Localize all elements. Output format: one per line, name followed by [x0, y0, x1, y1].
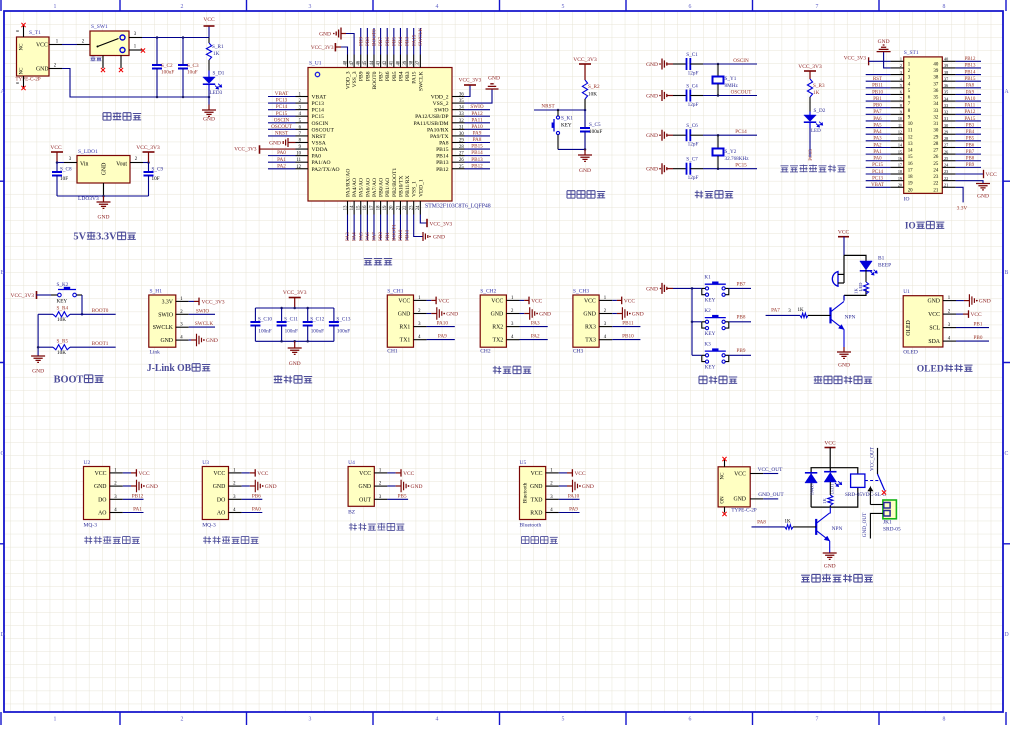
svg-text:7: 7 [900, 96, 902, 101]
svg-text:PA9: PA9 [966, 90, 975, 95]
svg-text:PB6: PB6 [252, 493, 261, 499]
svg-text:Bluetooth: Bluetooth [520, 523, 542, 529]
svg-text:26: 26 [944, 149, 948, 154]
svg-text:PA1: PA1 [133, 507, 142, 513]
svg-text:22: 22 [933, 182, 938, 187]
svg-text:5: 5 [562, 717, 565, 723]
svg-text:AO: AO [217, 511, 225, 517]
svg-text:4: 4 [436, 4, 439, 10]
svg-text:TX2: TX2 [493, 338, 504, 344]
svg-text:S_T1: S_T1 [29, 30, 41, 36]
svg-text:S_C7: S_C7 [686, 157, 698, 163]
svg-text:16: 16 [898, 156, 902, 161]
svg-text:14: 14 [350, 205, 355, 210]
ground LDO [97, 196, 111, 221]
ground jlink pin 4 [189, 334, 218, 347]
svg-text:PB8: PB8 [966, 157, 975, 162]
svg-text:VSS_3: VSS_3 [352, 71, 358, 87]
connector S_ST1 IO header body [904, 50, 943, 203]
svg-text:8: 8 [943, 717, 946, 723]
svg-text:PA8: PA8 [439, 140, 449, 146]
svg-text:40: 40 [944, 57, 948, 62]
svg-text:1K: 1K [213, 51, 220, 57]
resistor S_R4 10K [38, 306, 82, 323]
node PB6 U3 [242, 493, 263, 499]
svg-text:PB3: PB3 [405, 71, 411, 81]
capacitor S_C10 100nF [250, 308, 272, 341]
svg-text:RST: RST [873, 77, 882, 82]
button K1 KEY [692, 275, 729, 304]
capacitor S_C3 10uF [178, 38, 199, 98]
wire filter top rail [255, 307, 334, 310]
svg-text:PA5/AO: PA5/AO [359, 178, 365, 197]
svg-text:PB9: PB9 [737, 348, 746, 354]
power port VCC for LDO [50, 145, 63, 163]
svg-text:PA10: PA10 [965, 97, 976, 102]
svg-text:VCC: VCC [734, 472, 746, 478]
svg-text:20: 20 [390, 205, 395, 210]
S_H1 pins [176, 297, 189, 341]
svg-text:13: 13 [908, 142, 913, 147]
node GND_OUT [750, 492, 784, 499]
svg-text:15: 15 [908, 155, 913, 160]
svg-text:GND: GND [582, 484, 594, 490]
svg-text:PA1: PA1 [873, 150, 882, 155]
svg-text:100nF: 100nF [311, 329, 324, 335]
svg-text:MQ-3: MQ-3 [84, 523, 98, 529]
svg-text:VCC: VCC [257, 471, 268, 477]
svg-text:SWCLK: SWCLK [418, 28, 424, 46]
svg-text:24: 24 [933, 168, 938, 173]
svg-text:RX2: RX2 [492, 325, 503, 331]
U4 pins [374, 468, 387, 499]
connector JK1 SRD-05 [883, 500, 901, 533]
svg-text:28: 28 [933, 142, 938, 147]
svg-text:SRD-05: SRD-05 [883, 527, 901, 533]
svg-text:12pF: 12pF [688, 71, 699, 77]
svg-text:1K: 1K [854, 288, 859, 294]
svg-text:B1: B1 [878, 256, 885, 262]
svg-text:PB7: PB7 [378, 37, 384, 46]
svg-text:PB11: PB11 [622, 321, 634, 327]
resistor S_R1 1K [206, 38, 224, 61]
svg-text:MQ-3: MQ-3 [202, 523, 216, 529]
svg-text:31: 31 [459, 125, 464, 130]
ground keys [646, 283, 692, 294]
svg-text:K3: K3 [704, 341, 711, 347]
node PB7 [729, 281, 751, 288]
svg-text:Vin: Vin [80, 162, 88, 168]
svg-text:S_CH1: S_CH1 [387, 289, 403, 295]
svg-text:RXD: RXD [530, 511, 542, 517]
svg-text:33: 33 [459, 112, 464, 117]
connector S_CH1 body [387, 289, 413, 355]
ground crystal C7 [646, 163, 673, 174]
svg-text:S_U1: S_U1 [309, 61, 322, 67]
svg-text:PA10/RX: PA10/RX [427, 127, 449, 133]
title IO expansion [905, 221, 944, 232]
svg-text:10: 10 [898, 116, 902, 121]
svg-text:VCC: VCC [491, 298, 503, 304]
svg-text:PC13: PC13 [312, 101, 325, 107]
svg-text:1K: 1K [813, 90, 820, 96]
svg-text:PA0: PA0 [252, 507, 261, 513]
svg-text:GND: GND [269, 140, 281, 146]
resistor alarm 1K [854, 270, 869, 294]
svg-text:PB5: PB5 [966, 137, 975, 142]
svg-text:12pF: 12pF [688, 175, 699, 181]
svg-text:S_R5: S_R5 [57, 339, 69, 345]
svg-text:PB12: PB12 [436, 167, 449, 173]
svg-text:OSCOUT: OSCOUT [312, 127, 335, 133]
svg-text:PA6: PA6 [365, 232, 371, 241]
svg-text:PB3: PB3 [405, 37, 411, 46]
svg-text:12pF: 12pF [688, 102, 699, 108]
node PA9 [427, 334, 455, 340]
connector U4 BZ body [348, 460, 374, 515]
S_U1 top pins 48-37 [343, 55, 421, 68]
svg-text:PB1/AO: PB1/AO [385, 178, 391, 197]
svg-text:GND_OUT: GND_OUT [862, 512, 868, 537]
wire GND bottom rail [62, 69, 210, 99]
wire K2 to BOOT0 [81, 295, 84, 316]
svg-text:6: 6 [689, 4, 692, 10]
title filter circuit [274, 375, 312, 383]
svg-text:35: 35 [944, 90, 948, 95]
title 5V to 3.3V [73, 232, 135, 243]
svg-text:KEY: KEY [561, 123, 572, 129]
svg-text:IO: IO [904, 197, 910, 203]
svg-text:GND: GND [579, 168, 591, 174]
button K3 KEY [692, 341, 729, 370]
svg-text:VCC: VCC [139, 471, 150, 477]
svg-text:10: 10 [908, 122, 913, 127]
svg-text:PB0/AO: PB0/AO [379, 178, 385, 197]
svg-text:PB14: PB14 [965, 70, 976, 75]
svg-text:VCC: VCC [203, 17, 215, 23]
svg-text:VBAT: VBAT [871, 183, 884, 188]
capacitor S_C9 10F [144, 163, 164, 197]
capacitor S_C4 12pF [673, 84, 703, 109]
svg-text:VCC_3V3: VCC_3V3 [459, 78, 482, 84]
svg-text:VCC: VCC [824, 440, 836, 446]
svg-text:19: 19 [898, 176, 902, 181]
ground relay [823, 553, 837, 570]
svg-text:BOOT0: BOOT0 [92, 308, 109, 314]
svg-text:S_Y1: S_Y1 [725, 76, 737, 82]
button K2 KEY [692, 308, 729, 337]
svg-text:GND: GND [733, 497, 746, 503]
svg-text:GND: GND [289, 361, 301, 367]
svg-text:PB14: PB14 [471, 150, 483, 156]
svg-text:3: 3 [900, 70, 902, 75]
TYPE-C-2P bottom no-connect pin [722, 507, 726, 516]
svg-text:47: 47 [350, 60, 355, 65]
power port VCC_3V3 at chip pin 36 [459, 78, 482, 97]
S_U1 right pins 36-25 [452, 93, 465, 170]
svg-text:OSCOUT: OSCOUT [731, 90, 753, 96]
svg-text:NPN: NPN [832, 526, 843, 532]
svg-text:20: 20 [908, 188, 913, 193]
svg-text:PA11: PA11 [471, 117, 483, 123]
svg-text:VSS_2: VSS_2 [433, 101, 449, 107]
capacitor S_C1 12pF [673, 52, 703, 77]
ground alarm [837, 347, 851, 369]
wire relay emitter [829, 541, 831, 553]
power port VCC_3V3 filter [283, 290, 307, 308]
svg-text:PA5: PA5 [873, 123, 882, 128]
power port VCC_3V3 run LED [798, 64, 822, 79]
svg-text:PC15: PC15 [276, 111, 288, 117]
svg-text:DO: DO [98, 497, 106, 503]
transistor NPN relay [816, 507, 842, 541]
svg-text:31: 31 [944, 116, 948, 121]
svg-text:25: 25 [944, 156, 948, 161]
svg-text:PA15: PA15 [965, 117, 976, 122]
svg-text:PA15: PA15 [412, 71, 418, 83]
svg-text:100nF: 100nF [285, 329, 298, 335]
svg-text:100nF: 100nF [337, 329, 350, 335]
svg-text:GND: GND [160, 338, 173, 344]
svg-text:S_C1: S_C1 [686, 52, 698, 58]
connector TYPE-C-2P output body [718, 467, 757, 514]
svg-text:NRST: NRST [275, 131, 289, 137]
ground header pin 22 [956, 181, 990, 200]
svg-text:S_H1: S_H1 [150, 289, 163, 295]
S_SW1 pin 1 no-connect [129, 45, 145, 53]
svg-text:VCC: VCC [928, 312, 940, 318]
wires right chip nets [465, 104, 491, 169]
capacitor S_C7 12pF [673, 157, 703, 182]
svg-text:32: 32 [944, 110, 948, 115]
svg-text:19: 19 [383, 205, 388, 210]
svg-text:17: 17 [370, 205, 375, 210]
resistor alarm base 1K [800, 313, 831, 317]
S_CH3 pins [599, 296, 612, 340]
power port VCC_3V3 LDO out [136, 145, 160, 163]
svg-text:2: 2 [181, 4, 184, 10]
title main chip [364, 259, 392, 265]
svg-text:25: 25 [933, 162, 938, 167]
svg-text:PA9: PA9 [438, 334, 447, 340]
svg-text:20: 20 [898, 182, 902, 187]
title OLED display [917, 364, 973, 375]
node PC15 [703, 163, 757, 170]
svg-text:PC15: PC15 [312, 114, 325, 120]
U5 pins [546, 468, 559, 513]
svg-text:43: 43 [376, 60, 381, 65]
wires bottom chip nets [345, 215, 411, 242]
svg-text:8: 8 [900, 103, 902, 108]
svg-text:PB6: PB6 [385, 37, 391, 46]
svg-text:LED3: LED3 [210, 90, 223, 96]
svg-text:GND: GND [632, 312, 644, 318]
svg-text:42: 42 [383, 60, 388, 65]
svg-text:3: 3 [309, 717, 312, 723]
svg-text:S_Y2: S_Y2 [725, 149, 737, 155]
svg-text:PA12: PA12 [965, 110, 976, 115]
svg-text:18: 18 [376, 205, 381, 210]
wire boot trunk [37, 314, 40, 356]
svg-text:PA9: PA9 [569, 507, 578, 513]
svg-text:BEEP: BEEP [878, 263, 891, 269]
svg-text:GND: GND [102, 163, 108, 176]
power port VCC CH2 [520, 297, 543, 305]
capacitor S_C6 12pF [673, 123, 703, 148]
svg-text:12: 12 [898, 129, 902, 134]
title power circuit [103, 112, 141, 120]
svg-text:3.3V: 3.3V [957, 206, 968, 212]
svg-text:32.768KHz: 32.768KHz [725, 156, 750, 162]
svg-text:1K: 1K [797, 308, 804, 313]
node PA9 U5 [559, 507, 580, 513]
svg-text:Vout: Vout [116, 162, 127, 168]
svg-text:PA0: PA0 [312, 154, 322, 160]
ground U5 [559, 480, 594, 493]
svg-text:LDO3V3: LDO3V3 [78, 196, 99, 202]
svg-text:NPN: NPN [845, 315, 856, 321]
svg-text:PA5: PA5 [358, 232, 364, 241]
svg-text:GND: GND [94, 484, 107, 490]
svg-text:10K: 10K [588, 92, 597, 98]
svg-text:PA10: PA10 [437, 321, 449, 327]
svg-text:JK1: JK1 [883, 520, 892, 526]
svg-text:21: 21 [933, 188, 938, 193]
S_SW1 pin 3 [129, 32, 142, 38]
connector S_H1 J-Link body [149, 289, 176, 356]
svg-text:NC: NC [721, 472, 726, 480]
node PB12 U2 [123, 493, 144, 499]
svg-text:PA4/AO: PA4/AO [352, 178, 358, 197]
svg-text:PA8: PA8 [757, 519, 766, 525]
ground filter [288, 341, 302, 367]
svg-text:38: 38 [933, 76, 938, 81]
ground at chip pin 23 [414, 215, 445, 242]
svg-text:SWIO: SWIO [158, 312, 173, 318]
svg-text:VCC_3V3: VCC_3V3 [10, 293, 34, 299]
wire JK1 pin 1 [870, 504, 883, 506]
svg-text:PB6: PB6 [966, 143, 975, 148]
svg-text:PB11: PB11 [872, 84, 883, 89]
svg-text:PB7: PB7 [379, 71, 385, 81]
svg-text:S_D1: S_D1 [213, 71, 225, 77]
ground header pin 2 [877, 39, 891, 68]
svg-text:27: 27 [944, 143, 948, 148]
power port VCC U5 [559, 469, 586, 477]
svg-text:GND: GND [979, 299, 991, 305]
svg-text:21: 21 [944, 182, 948, 187]
capacitor S_C5 100nF [580, 110, 602, 149]
power port VCC_3V3 at chip pin 48 [311, 43, 348, 55]
svg-text:S_R1: S_R1 [212, 44, 224, 50]
resistor relay LED 1K [822, 482, 833, 505]
svg-text:34: 34 [933, 102, 938, 107]
LED S_D2 [804, 97, 826, 157]
svg-text:VCC: VCC [531, 299, 542, 305]
svg-text:GND: GND [32, 369, 44, 375]
svg-text:1: 1 [54, 717, 57, 723]
svg-text:29: 29 [933, 135, 938, 140]
svg-text:U4: U4 [348, 460, 355, 466]
wire relay top rail [811, 468, 858, 507]
node PB11 [612, 321, 640, 327]
crystal S_Y1 8MHz [713, 64, 739, 96]
svg-text:10F: 10F [60, 176, 68, 182]
svg-text:PB12: PB12 [965, 57, 976, 62]
node PB5 U4 [387, 493, 408, 499]
svg-text:27: 27 [933, 149, 938, 154]
svg-text:VDD_1: VDD_1 [418, 179, 424, 197]
svg-text:OSCOUT: OSCOUT [271, 124, 293, 130]
svg-text:30: 30 [933, 129, 938, 134]
svg-text:24: 24 [416, 205, 421, 210]
svg-text:GND: GND [411, 484, 423, 490]
svg-text:GND: GND [491, 312, 504, 318]
svg-text:GND: GND [539, 312, 551, 318]
svg-text:10F: 10F [152, 176, 160, 182]
svg-text:23: 23 [410, 205, 415, 210]
svg-text:VCC: VCC [398, 298, 410, 304]
node VCC_OUT [750, 467, 783, 474]
S_CH2 pins [506, 296, 519, 340]
svg-text:K1: K1 [704, 275, 711, 281]
svg-text:11: 11 [898, 123, 902, 128]
svg-text:S_C5: S_C5 [589, 122, 601, 128]
ground U2 [123, 480, 158, 493]
svg-text:PC15: PC15 [872, 163, 883, 168]
svg-text:PB10: PB10 [872, 90, 883, 95]
svg-text:SWCLK: SWCLK [418, 72, 424, 92]
svg-text:1N4007: 1N4007 [810, 482, 815, 495]
connector U5 Bluetooth body [520, 460, 546, 529]
svg-text:ON: ON [721, 496, 726, 504]
svg-text:39: 39 [403, 60, 408, 65]
svg-text:VDD_2: VDD_2 [431, 95, 449, 101]
svg-text:PA7: PA7 [771, 308, 780, 314]
svg-text:PB12: PB12 [471, 163, 483, 169]
resistor S_R2 10K [582, 80, 600, 110]
U1 OLED pins [943, 296, 956, 342]
svg-text:PA3/RX/AO: PA3/RX/AO [346, 169, 352, 197]
svg-text:48: 48 [343, 60, 348, 65]
svg-text:GND: GND [319, 32, 331, 38]
connector U3 MQ-3 body [202, 460, 228, 529]
S_LDO1 GND pin wire rail [57, 183, 149, 197]
svg-text:GND: GND [359, 484, 372, 490]
svg-text:11: 11 [296, 158, 301, 163]
svg-text:40: 40 [396, 60, 401, 65]
svg-text:GND: GND [838, 363, 850, 369]
resistor S_R5 10K [38, 339, 116, 356]
title reset circuit [567, 191, 605, 198]
svg-text:5: 5 [900, 83, 902, 88]
connector S_CH2 body [480, 289, 506, 355]
svg-text:40: 40 [933, 62, 938, 67]
svg-text:5: 5 [562, 4, 565, 10]
svg-text:23: 23 [944, 169, 948, 174]
svg-text:PB9: PB9 [359, 71, 365, 81]
svg-text:10: 10 [296, 152, 301, 157]
svg-text:VCC_3V3: VCC_3V3 [234, 147, 257, 153]
svg-text:PA2: PA2 [873, 143, 882, 148]
title keys circuit [699, 376, 737, 384]
wire alarm top rail [844, 255, 866, 300]
LED alarm [858, 261, 877, 291]
svg-text:15: 15 [357, 205, 362, 210]
svg-text:TYPE-C-2P: TYPE-C-2P [15, 77, 40, 83]
svg-text:OSCIN: OSCIN [274, 117, 290, 123]
title alarm circuit [814, 376, 872, 384]
